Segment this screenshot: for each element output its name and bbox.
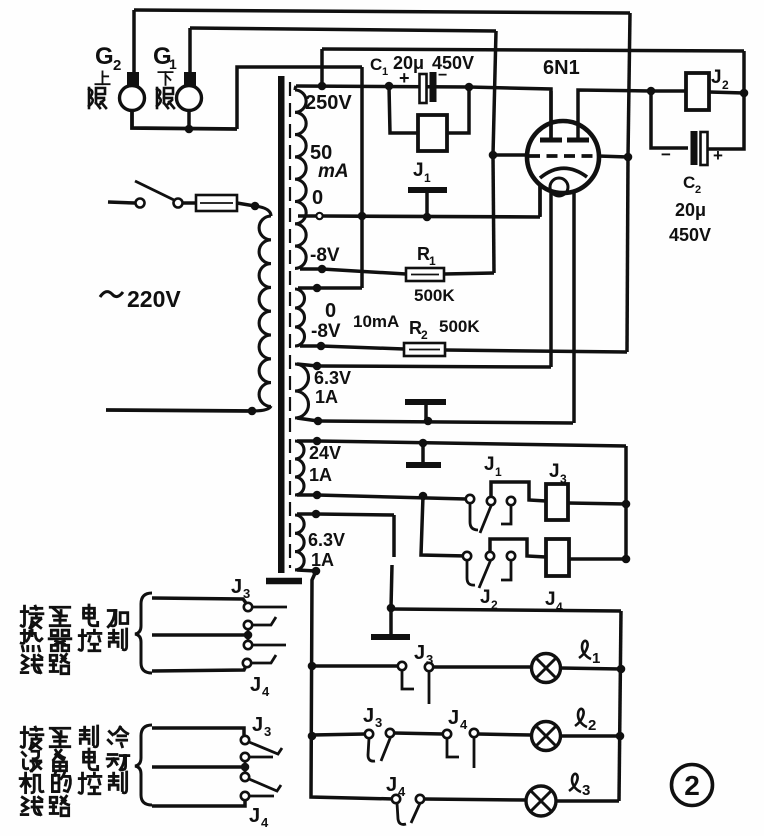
junction: lamp winding top tap dot (312, 510, 321, 519)
heater group J3 blade circle (244, 621, 252, 629)
0 tap small circle (316, 213, 322, 219)
svg-text:2: 2 (421, 328, 428, 342)
junction: right rail row2 (616, 732, 625, 741)
wire: vertical from rail A down to triode-2 grid node (628, 13, 630, 157)
row1 contact throw (425, 663, 433, 671)
heater group J3 blade with hook (252, 617, 276, 625)
J2 contact throw circle (486, 552, 494, 560)
cooling group J4 upper circle (241, 773, 249, 781)
junction: C1 left / J1 left branch (385, 82, 394, 91)
ground: below J1 (408, 187, 447, 193)
junction: J4 coil rail end (622, 555, 631, 564)
wire: mains stub to switch (108, 202, 135, 203)
text: xian (limit) for G1 (157, 88, 174, 108)
wire: G1 top lead (188, 28, 192, 73)
wire: ground stem to 0 line (425, 193, 429, 217)
row3 pole hook (397, 803, 406, 824)
wire: vertical from rail B down to triode-1 grid node (493, 31, 496, 155)
cooling group J4 blade (249, 779, 281, 791)
J2 contact moving blade (479, 557, 492, 588)
svg-text:1: 1 (424, 171, 431, 185)
mains switch blade (135, 181, 174, 200)
wire: 24V ground stem (421, 443, 425, 462)
wire: cooling group J4 stub (249, 795, 274, 798)
wire: lamp drop upper segment (392, 515, 396, 557)
svg-text:2: 2 (588, 717, 596, 734)
wire: 0 line rise to cathode lead (538, 186, 542, 217)
switch pole circle left (136, 199, 145, 208)
junction: feed branch to J2 contact (419, 492, 428, 501)
svg-text:−: − (661, 145, 671, 164)
wire: heater ground stem (424, 404, 428, 421)
junction: anode-2 / J2 / C2 node (647, 87, 656, 96)
wire: anode supply rail from HV winding top to C1 (296, 86, 469, 87)
wire: lamp winding bottom tap (297, 570, 316, 571)
fuse FU (196, 195, 237, 211)
wire: cooling group J3 stub (249, 756, 273, 759)
wire: lamp L2 to right rail (560, 734, 620, 738)
label ~220V (100, 292, 123, 297)
J2 NO stub (501, 560, 511, 580)
svg-text:C: C (370, 55, 382, 74)
svg-text:3: 3 (375, 715, 382, 730)
svg-text:mA: mA (318, 161, 349, 182)
wire: G common up and over to 0-tap vertical (237, 67, 362, 129)
ground: heater line (405, 399, 446, 405)
wire: R2 right lead to grid-2 vertical (445, 350, 627, 352)
row3 blade (411, 801, 421, 823)
svg-text:-8V: -8V (311, 321, 341, 342)
heater group J4 fixed circle (244, 641, 252, 649)
wire: heater lead 2 down to 6.3V bottom tap (572, 191, 576, 423)
wire: 6.3V bottom tap (297, 418, 318, 421)
lamp L1 (532, 654, 561, 683)
wire: J4 coil to rail (569, 557, 626, 561)
wire: second 0 tap over to G-common vertical (298, 286, 362, 290)
wire: grid-2 lead out (598, 156, 628, 157)
wire: 24V top line over to relay coil rail (317, 441, 626, 446)
wire: row1 to lamp L1 (433, 665, 531, 669)
switch pole circle right (174, 199, 183, 208)
label L2 (575, 709, 587, 727)
svg-text:6N1: 6N1 (543, 57, 580, 79)
svg-text:1A: 1A (315, 387, 338, 407)
ground: core/shield (266, 578, 302, 585)
wire: 0 tap (298, 214, 316, 218)
svg-text:J: J (711, 67, 722, 88)
cooling group J3 blade (249, 742, 282, 754)
wire: R1 right lead (444, 273, 494, 274)
6N1 grids (dashed) (529, 154, 599, 158)
wire: G2 top lead (132, 10, 136, 73)
junction: C1 right / J1 right branch (465, 83, 474, 92)
wire: G2/G1 bottom common (132, 110, 237, 129)
row2 J4 pole stub (447, 738, 459, 757)
svg-text:20μ: 20μ (675, 200, 706, 220)
junction: 6.3V bottom tap dot (314, 417, 323, 426)
wire: vertical joining both 0 taps (crosses HV rail) (360, 67, 364, 288)
junction: lamp winding bottom tap dot (312, 567, 321, 576)
J2 contact NO circle (507, 552, 515, 560)
wire: cathode lead down to 0 line (538, 186, 542, 216)
row2 J3 pole (365, 730, 373, 738)
svg-text:450V: 450V (669, 225, 711, 245)
svg-text:J: J (413, 160, 424, 181)
contact thermometer electrode G1 (184, 72, 196, 86)
svg-text:J: J (252, 714, 263, 736)
junction: J2 right / rail C / C2 right (740, 89, 749, 98)
wire: J2 contact to J4 coil (490, 539, 546, 557)
junction: 0 line / J1 ground stem (423, 213, 432, 222)
wire: G1 bottom lead (187, 110, 191, 129)
svg-text:1: 1 (382, 66, 388, 78)
svg-text:J: J (250, 674, 261, 696)
wire: -8V 10mA to R2 (321, 346, 404, 349)
svg-text:J: J (448, 707, 459, 729)
wire: lamp winding top to drop (316, 514, 394, 515)
6N1 anode plates (540, 138, 589, 143)
capacitor C1 20u450V electrolytic (420, 74, 427, 103)
wire: rail to triode-1 anode (469, 87, 551, 140)
relay coil J1 (418, 115, 447, 151)
svg-text:3: 3 (264, 724, 271, 739)
contact thermometer electrode G2 (127, 72, 139, 86)
wire: mains bottom stub to primary bottom (106, 410, 252, 411)
row2 J4 throw (470, 729, 478, 737)
wire: cooling group line 3 (152, 800, 245, 806)
junction: G1 bottom on common wire (185, 125, 194, 134)
wire: 6.3V bottom tap to heater lead 2 (318, 421, 573, 423)
wire: C2 right lead up to J2 right (707, 93, 744, 149)
wire: fuse to primary top (237, 203, 255, 206)
wire: 6.3V top tap (297, 364, 317, 366)
svg-text:6.3V: 6.3V (314, 368, 351, 388)
heater group J4 blade with hook (251, 655, 276, 663)
capacitor C2 20u450V electrolytic (691, 131, 698, 165)
6N1 heater bump (550, 178, 568, 196)
text: shang (upper) (95, 71, 109, 84)
heater group J4 blade circle (243, 659, 251, 667)
transformer secondary winding S2 (0, -8V 10mA) (295, 289, 305, 346)
wire: 24V bottom tap (297, 493, 317, 497)
svg-text:G: G (95, 43, 114, 70)
svg-text:220V: 220V (127, 286, 181, 312)
svg-text:500K: 500K (414, 286, 455, 305)
svg-text:4: 4 (262, 684, 270, 699)
transformer secondary winding S5 (6.3V 1A lamps) (295, 515, 304, 570)
svg-text:3: 3 (243, 586, 250, 601)
junction: cooling group common (241, 763, 250, 772)
ground: lamp circuit (371, 634, 410, 640)
svg-text:−: − (438, 67, 447, 84)
wire: triode-2 anode lead to J2 (578, 90, 651, 140)
row2 J3 blade (381, 736, 391, 761)
svg-text:6.3V: 6.3V (308, 530, 345, 550)
J1 contact NO circle (507, 497, 515, 505)
wire: rail B (G1 top to grid-1 vertical) (190, 28, 496, 31)
row1 pole stub (402, 670, 414, 689)
transformer secondary winding S3 (6.3V 1A heater) (295, 364, 309, 418)
wire: -8V(10mA) tap (300, 344, 321, 348)
wire: C2 left lead (651, 91, 688, 148)
wire: lamp ground stem (389, 610, 393, 634)
relay coil J2 (686, 73, 709, 110)
svg-text:J: J (231, 576, 242, 598)
junction: left rail row2 (308, 732, 317, 741)
wire: grid-1 lead out (493, 153, 529, 157)
row2 J3 throw (386, 729, 394, 737)
wire: row2 to lamp L2 (478, 734, 531, 735)
J1 contact throw circle (487, 497, 495, 505)
wire: heater group line 1 (152, 598, 246, 603)
brace: heater-control group (135, 593, 152, 673)
figure number 2 in circle (672, 765, 713, 806)
row2 J3 pole hook (368, 738, 375, 761)
wire: row1 feed (312, 664, 398, 668)
brace: cooling-control group (135, 725, 152, 805)
svg-text:C: C (683, 173, 695, 192)
svg-text:1: 1 (429, 254, 436, 268)
wire: cooling group line 2 (common) (152, 765, 241, 769)
junction: left rail row1 (308, 662, 317, 671)
J2 contact pole hook (467, 560, 475, 585)
junction: 6.3V top tap dot (313, 362, 322, 371)
wire: lamp box top line (391, 609, 621, 611)
junction: heater line / ground stem (424, 417, 433, 426)
ground: 24V line (406, 462, 441, 468)
wire: J3 coil to rail (568, 503, 626, 504)
svg-text:J: J (480, 587, 491, 608)
wire: rail C drop to J2 right terminal (742, 51, 746, 93)
wire: row3 to lamp L3 (424, 799, 526, 800)
transformer secondary winding S1 (250V 50mA, 0, -8V) (295, 86, 296, 90)
wire: grid-2 vertical continues down to R2 corner (627, 157, 628, 352)
svg-text:1: 1 (592, 650, 600, 667)
svg-text:10mA: 10mA (353, 312, 399, 331)
junction: -8V tap dot (318, 265, 327, 274)
wire: heater group J3 stub (252, 606, 287, 609)
wire: lamp L1 to right rail (560, 668, 621, 669)
J2 contact pole circle (463, 552, 471, 560)
row1 blade open (428, 671, 431, 704)
J1 NO stub (501, 505, 511, 524)
svg-text:3: 3 (582, 782, 590, 799)
resistor R2 500K (404, 343, 445, 356)
wire: heater group J4 stub (252, 644, 286, 647)
svg-text:1: 1 (495, 465, 502, 479)
svg-text:J: J (545, 589, 556, 610)
wire: heater group line 2 (common) (152, 633, 248, 637)
junction: 24V top tap dot (313, 437, 322, 446)
svg-text:3: 3 (560, 472, 567, 486)
wire: rail C stub down to anode supply rail (320, 49, 324, 86)
label L1 (579, 641, 591, 659)
junction: grid-1 node (489, 151, 498, 160)
relay coil J3 (546, 484, 568, 520)
wire: lamp drop lower segment (391, 565, 392, 608)
junction: rail C stub on anode rail (318, 82, 327, 91)
wire: -8V tap (300, 267, 322, 271)
wire: grid-1 vertical continues to R1 corner (493, 155, 494, 273)
junction: right rail row1 (617, 665, 626, 674)
wire: row2 middle link (394, 733, 443, 734)
svg-text:J: J (386, 774, 397, 796)
svg-text:J: J (414, 642, 425, 664)
transformer secondary winding S4 (24V 1A) (295, 441, 304, 495)
wire: top rail A (G2 top to grid-2 vertical) (134, 10, 630, 13)
wire: switch to fuse (182, 201, 196, 205)
wire: rail C (HV winding top over to J2 right) (322, 49, 744, 51)
twin triode U1 6N1 envelope (527, 121, 599, 193)
wire: cooling group line 1 (152, 728, 244, 735)
wire: lamp left rail down and to J4 contact (311, 571, 394, 799)
svg-text:+: + (713, 146, 723, 165)
junction: 24V line / ground stem (419, 439, 428, 448)
cooling group J3 lower circle (241, 753, 249, 761)
lamp L2 (532, 722, 561, 751)
wire: lamp L3 to right rail (556, 799, 619, 803)
junction: -8V 10mA tap dot (317, 342, 326, 351)
wire: 24V top tap (297, 439, 317, 443)
row1 contact pole (398, 662, 406, 670)
wire: heater lead 1 down to 6.3V top tap (549, 191, 553, 367)
svg-text:2: 2 (113, 57, 121, 74)
wire: triode-1 anode lead inside (549, 91, 553, 140)
svg-text:1A: 1A (309, 465, 332, 485)
svg-text:J: J (549, 461, 560, 482)
svg-text:2: 2 (684, 770, 700, 801)
svg-text:2: 2 (695, 184, 701, 196)
junction: J3 coil on rail (622, 500, 631, 509)
wire: 0 line to cathode (323, 216, 540, 217)
wire: J1 contact to J3 coil (491, 482, 546, 501)
junction: second 0 tap dot (313, 284, 322, 293)
svg-text:500K: 500K (439, 317, 480, 336)
row3 throw (416, 795, 424, 803)
J1 contact pole circle (466, 495, 474, 503)
wire: -8V to R1 (322, 269, 406, 274)
svg-text:0: 0 (312, 187, 323, 209)
wire: 24V bottom feed to J1 contact (317, 495, 466, 499)
svg-text:4: 4 (460, 717, 468, 732)
wire: relay coil rail down J3/J4 (624, 446, 628, 560)
J1 contact pole hook (470, 503, 478, 530)
transformer T1 primary winding (255, 206, 271, 216)
text: xian (limit) for G2 (89, 88, 106, 108)
wire: common vertical link (247, 629, 250, 641)
junction: 24V bottom tap dot (313, 491, 322, 500)
cooling group J4 lower circle (241, 792, 249, 800)
wire: J2 coil left lead (651, 89, 686, 93)
row2 J4 blade open (473, 737, 476, 768)
cooling group J3 upper circle (241, 736, 249, 744)
6N1 cathode arc (540, 168, 587, 178)
wire: J1 coil right lead (447, 87, 469, 133)
wire: lamp right rail (619, 611, 621, 801)
text: connect-to-electric-heater-control-circuit (21, 606, 43, 628)
wire: cooling common vertical (244, 761, 247, 772)
label L3 (569, 774, 581, 792)
svg-text:250V: 250V (305, 92, 352, 114)
svg-text:0: 0 (325, 300, 336, 322)
junction: primary top node (251, 202, 260, 211)
text: connect-to-refrigeration-motor-control-circuit (21, 727, 43, 749)
svg-text:+: + (399, 68, 410, 88)
junction: primary bottom node (248, 407, 257, 416)
heater group J3 fixed circle (244, 603, 252, 611)
svg-text:2: 2 (722, 78, 729, 92)
wire: heater group line 3 (152, 666, 246, 671)
wire: feed down and over to J2 contact (421, 496, 467, 556)
resistor R1 500K (406, 268, 444, 281)
relay coil J4 (546, 539, 569, 576)
wire: lamp winding top tap (297, 512, 316, 516)
junction: lamp box top-left node (387, 604, 396, 613)
junction: 0 line / G-common vertical (358, 212, 367, 221)
text: xia (lower) (158, 72, 172, 85)
junction: grid-2 node (624, 153, 633, 162)
svg-text:24V: 24V (309, 443, 341, 463)
junction: heater group common (244, 631, 253, 640)
svg-text:J: J (484, 454, 495, 475)
wire: J1 coil left lead (389, 86, 418, 133)
svg-text:J: J (249, 805, 260, 827)
svg-text:1: 1 (169, 56, 177, 72)
transformer core (278, 76, 285, 573)
lamp L3 (526, 786, 556, 816)
wire: J2 coil right lead (709, 92, 744, 93)
wire: 6.3V top tap to heater lead 1 (317, 366, 551, 367)
svg-text:-8V: -8V (310, 245, 340, 266)
row3 pole (392, 795, 400, 803)
J1 contact moving blade (480, 501, 493, 533)
wire: row2 feed (312, 734, 365, 735)
svg-text:J: J (363, 705, 374, 727)
row2 J4 pole (443, 730, 451, 738)
svg-text:4: 4 (261, 815, 269, 830)
